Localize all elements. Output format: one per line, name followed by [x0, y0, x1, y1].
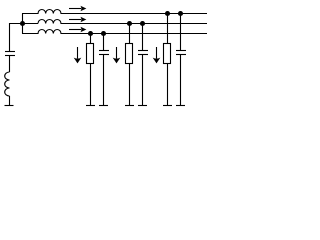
resistor R2: load resistor of middle phase [126, 44, 133, 64]
ground: terminal bar under capacitor C3 [176, 105, 185, 107]
current arrow: down arrow beside resistor R2 [113, 47, 121, 63]
wire: lead from bottom phase to resistor R1 [90, 34, 92, 44]
wire: lead from resistor R3 to terminal [167, 64, 169, 106]
wire: lead from bottom phase to capacitor C1 [103, 34, 105, 51]
node G: tap dot of capacitor branch on top phase [178, 11, 183, 16]
current arrow: right arrow above middle phase [69, 17, 86, 22]
wire: lead from capacitor C3 to terminal [180, 55, 182, 106]
node F: tap dot of resistor branch on top phase [165, 11, 170, 16]
wire: left branch lead between capacitor and coil [9, 56, 11, 73]
ground: terminal bar under resistor R1 [86, 105, 95, 107]
ground: terminal bar under resistor R2 [125, 105, 134, 107]
wire: lead from resistor R2 to terminal [129, 64, 131, 106]
wire: lead from top phase to capacitor C3 [180, 14, 182, 51]
node D: tap dot of resistor branch on middle phase [127, 21, 132, 26]
inductor L3: series coil in bottom phase wire [22, 29, 207, 33]
current arrow: down arrow beside resistor R1 [74, 47, 82, 63]
wire: input feeder entering left at middle phase [10, 24, 39, 52]
capacitor C2: shunt capacitor of middle phase [138, 51, 148, 55]
node A: junction dot of three-phase split [20, 21, 25, 26]
current arrow: right arrow above bottom phase [69, 27, 86, 32]
wire: lead from top phase to resistor R3 [167, 14, 169, 44]
capacitor C1: shunt capacitor of bottom phase [99, 51, 109, 55]
node E: tap dot of capacitor branch on middle phase [140, 21, 145, 26]
wire: lead from middle phase to resistor R2 [129, 24, 131, 44]
wire: vertical branch joining the three phases at x=22 [22, 14, 24, 34]
ground: terminal bar under capacitor C1 [99, 105, 108, 107]
ground: terminal bar of left branch [5, 105, 14, 107]
resistor R1: load resistor of bottom phase [87, 44, 94, 64]
capacitor C0: series capacitor in left earth branch [5, 52, 15, 56]
inductor L0: vertical coil in left earth branch [5, 72, 10, 96]
wire: lead from resistor R1 to terminal [90, 64, 92, 106]
wire: lead from capacitor C1 to terminal [103, 55, 105, 106]
capacitor C3: shunt capacitor of top phase [176, 51, 186, 55]
node B: tap dot of resistor branch on bottom phase [88, 31, 93, 36]
ground: terminal bar under capacitor C2 [138, 105, 147, 107]
inductor L1: series coil in top phase wire [22, 9, 207, 13]
ground: terminal bar under resistor R3 [163, 105, 172, 107]
wire: lead from middle phase to capacitor C2 [142, 24, 144, 51]
current arrow: down arrow beside resistor R3 [153, 47, 161, 63]
inductor L2: series coil in middle phase wire [38, 19, 207, 23]
wire: lead from capacitor C2 to terminal [142, 55, 144, 106]
wire: left branch lead to bottom terminal [9, 96, 11, 106]
resistor R3: load resistor of top phase [164, 44, 171, 64]
node C: tap dot of capacitor branch on bottom phase [101, 31, 106, 36]
current arrow: right arrow above top phase [69, 6, 86, 11]
